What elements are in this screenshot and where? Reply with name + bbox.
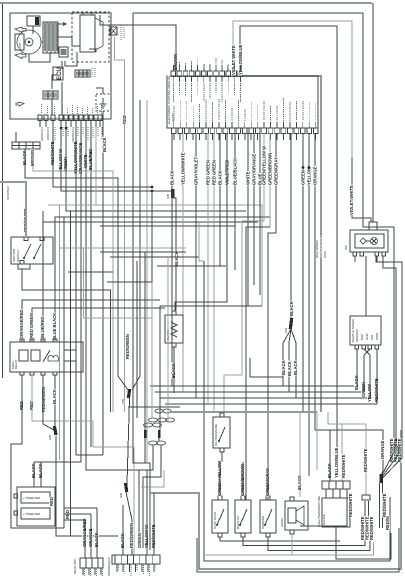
wire red/green down	[43, 375, 54, 430]
wire yellow ecm	[308, 133, 310, 476]
node dot	[151, 186, 154, 189]
wire oa	[84, 520, 86, 558]
wire outer right vertical	[372, 3, 374, 222]
twisted pair connector	[362, 495, 370, 500]
pins below B	[116, 564, 118, 572]
relay pin ticks	[20, 339, 24, 342]
wire yellow w	[61, 120, 171, 191]
svg-text:RED/GREEN: RED/GREEN	[129, 523, 134, 548]
ground symbol	[100, 98, 107, 108]
ISC pins bottom	[353, 252, 357, 256]
cluster pin stubs	[39, 121, 41, 128]
wire white	[86, 120, 147, 470]
node dot	[138, 545, 141, 548]
wire stub up	[15, 132, 17, 142]
wire bundle down b	[158, 438, 160, 441]
arrow upper	[15, 27, 26, 33]
svg-text:REAR WIP: REAR WIP	[73, 559, 77, 574]
wire gray 205 bus	[96, 120, 262, 306]
wire x140	[139, 100, 141, 376]
wire white ecm	[247, 133, 249, 306]
ECU box	[53, 67, 63, 80]
wire gray corner to bottom	[141, 470, 164, 487]
bus 518	[64, 507, 97, 509]
condenser box	[17, 487, 55, 526]
wire brown	[100, 15, 176, 71]
bus 530	[64, 519, 85, 521]
wire comp bottom	[173, 347, 175, 393]
bus 398	[160, 397, 370, 399]
wire gray 412 down	[316, 412, 318, 470]
wire blue/red up	[43, 222, 258, 342]
wire blue/red	[90, 120, 92, 447]
svg-text:SWITCH: SWITCH	[16, 250, 20, 262]
svg-text:BLACK: BLACK	[289, 301, 294, 316]
wire blue ecm	[259, 133, 261, 295]
wire isc to sensor	[365, 256, 367, 316]
svg-text:BLACK: BLACK	[170, 170, 175, 185]
svg-text:YELLOW: YELLOW	[307, 167, 312, 185]
svg-text:S/B: S/B	[119, 493, 123, 498]
fuse box	[59, 47, 68, 57]
wire to speaker	[55, 375, 56, 429]
wire brown	[33, 149, 113, 412]
bus 392	[155, 391, 364, 393]
twisted wire ellipse row3	[144, 423, 153, 427]
wire sw3 bottom	[268, 537, 370, 551]
svg-text:SENSOR: SENSOR	[355, 328, 359, 342]
wire violet-white net	[233, 21, 352, 160]
sensor pins	[355, 345, 359, 349]
svg-text:+ TWEETER: + TWEETER	[23, 512, 41, 516]
fuel pump relay box	[165, 315, 183, 343]
wire black pair	[33, 462, 35, 487]
node dot	[60, 127, 63, 130]
svg-text:STOP LIGHT: STOP LIGHT	[213, 511, 217, 529]
svg-text:BLACK: BLACK	[218, 170, 223, 185]
rear wiper connector	[80, 558, 103, 568]
svg-text:GREEN/BROWN: GREEN/BROWN	[268, 153, 273, 185]
svg-text:SIG: SIG	[370, 334, 374, 340]
svg-text:BLUE/BLACK: BLUE/BLACK	[233, 158, 238, 185]
svg-text:GND: GND	[365, 333, 369, 341]
check connector 4pin	[75, 70, 90, 77]
wire red green ecm	[213, 133, 215, 412]
wire sensor3	[369, 355, 371, 398]
wire green/brown jog	[246, 227, 270, 500]
cluster pin tiny labels	[41, 127, 43, 141]
wire 43 drop to switch	[42, 211, 44, 237]
wire isc pin stub	[354, 256, 356, 262]
wire gray down 59.5	[59, 205, 61, 460]
main relay box	[10, 342, 83, 372]
wire oil sw down	[221, 452, 223, 462]
svg-text:B/W: B/W	[360, 334, 364, 340]
svg-text:YELLOW/BLUE: YELLOW/BLUE	[334, 447, 339, 478]
wire sensor1	[356, 349, 358, 386]
twisted wire ellipse row4	[149, 441, 158, 445]
svg-text:YELLOW/WHITE: YELLOW/WHITE	[181, 152, 186, 185]
wire red down1	[11, 375, 64, 528]
bus 261 jog	[199, 222, 204, 261]
black/brown connector	[12, 142, 40, 149]
svg-text:RED GREEN: RED GREEN	[29, 313, 34, 338]
wire black ecm	[171, 133, 173, 386]
bus 226	[100, 225, 235, 227]
wire dark 70.5	[70, 211, 72, 536]
wire orange ecm	[314, 133, 316, 430]
wire green ecm	[302, 133, 304, 412]
wire gray 248 bus	[60, 247, 187, 249]
wire bundle diagonals	[381, 470, 383, 477]
svg-text:BLACK: BLACK	[52, 389, 57, 404]
wire sw1 bottom	[220, 537, 340, 541]
ignition switch box	[11, 237, 53, 264]
ECM bottom pin stubs	[173, 134, 175, 141]
wire green/gray top	[267, 462, 269, 496]
svg-text:ISC: ISC	[344, 244, 348, 250]
ECM top outside labels	[178, 62, 180, 70]
svg-text:S/B: S/B	[284, 328, 288, 333]
wire left long x133	[133, 13, 150, 550]
wire oc	[96, 508, 98, 558]
wire top gray bus	[0, 2, 372, 4]
distributor circle	[17, 30, 41, 54]
svg-text:GRAY/VIOLET: GRAY/VIOLET	[194, 157, 199, 185]
wire horn gray	[299, 412, 301, 497]
node dot	[146, 545, 149, 548]
wire blue/black ecm	[234, 133, 236, 270]
ECM top outside labels	[178, 62, 180, 70]
connector A pin labels	[84, 569, 86, 577]
svg-text:BLUE/RED: BLUE/RED	[40, 317, 45, 338]
twisted wire ellipse row2	[149, 418, 158, 422]
bus 386	[150, 385, 357, 387]
wire red green ecm	[207, 133, 209, 404]
bus 252	[100, 251, 186, 253]
twisted wire ellipse row1	[155, 409, 163, 413]
wire black3 c	[288, 343, 290, 392]
svg-text:RELAY: RELAY	[14, 359, 18, 369]
bus 524	[64, 513, 91, 515]
arrow lower	[15, 53, 26, 59]
wire gray 205 left ext	[48, 204, 96, 206]
ECM internal pin labels bottom	[173, 106, 175, 121]
fuel/temp gauge box	[322, 498, 350, 527]
wire gnd down	[102, 119, 104, 455]
svg-text:PWR: PWR	[375, 332, 379, 340]
crossing X	[364, 349, 370, 355]
wire gray big loop	[149, 430, 401, 569]
svg-text:WINDSHIELD: WINDSHIELD	[107, 556, 111, 576]
svg-text:RED GREEN: RED GREEN	[206, 160, 211, 185]
wire gray/violet ecm	[195, 133, 197, 398]
svg-text:RED/WHITE: RED/WHITE	[363, 448, 368, 472]
wire black ecm	[219, 133, 221, 266]
svg-text:S/B: S/B	[166, 194, 170, 199]
twisted pair	[364, 501, 366, 538]
splice	[171, 189, 175, 198]
cluster internal wires	[32, 26, 34, 34]
wire green/gray jog	[268, 233, 276, 500]
wire x147 gray	[146, 100, 148, 463]
wire gray feed ign	[0, 182, 26, 237]
svg-text:S/B: S/B	[48, 435, 52, 440]
wire bundle down d	[143, 445, 161, 548]
wire green/yellow w ecm	[263, 133, 265, 221]
bus 306	[160, 305, 262, 307]
wire cont	[128, 406, 180, 408]
wire gray/orange ecm	[253, 133, 255, 285]
bus 282	[32, 308, 165, 342]
wire funnel merge	[118, 376, 128, 390]
wire red main	[115, 37, 125, 412]
fuel/temp gauge connector	[322, 481, 350, 489]
gauge wires between	[325, 489, 327, 498]
svg-text:GREEN: GREEN	[301, 170, 306, 185]
wire b1	[122, 505, 124, 555]
node dot	[151, 190, 154, 193]
arrow right of strip	[58, 23, 66, 25]
switch STOP LIGHT	[212, 500, 228, 533]
wire yellow/white ecm	[182, 133, 184, 392]
switch PARKING	[260, 500, 276, 533]
vehicle speed sensor box	[350, 316, 381, 345]
svg-text:RED/WHITE: RED/WHITE	[382, 493, 387, 517]
wire left edge	[2, 3, 4, 378]
connector B pin labels	[118, 565, 120, 571]
svg-text:GRAY/ORANGE: GRAY/ORANGE	[252, 154, 257, 185]
ign bottom connector	[18, 264, 30, 269]
pins below A	[82, 568, 84, 575]
wire bundle down a	[133, 438, 145, 463]
svg-text:BLUE BLACK: BLUE BLACK	[52, 313, 57, 340]
oil pressure switch box	[213, 417, 230, 448]
main fuse link	[110, 27, 117, 35]
ECM top pin stubs	[172, 65, 174, 71]
wire gray/orange	[80, 120, 82, 462]
splice ticks	[144, 430, 147, 438]
bus 377	[250, 376, 283, 378]
wire green/brown ecm	[269, 133, 271, 227]
wire ob	[90, 514, 92, 558]
battery dashed box	[72, 12, 109, 62]
svg-text:RED: RED	[49, 497, 54, 506]
bus dark 572	[197, 528, 399, 572]
svg-text:GREEN/YELLOW W: GREEN/YELLOW W	[262, 146, 267, 185]
wire bundle down c	[139, 445, 153, 548]
wire red down2 gray	[32, 375, 134, 555]
ECM top pin stubs	[172, 65, 174, 71]
bus 257	[110, 256, 199, 258]
distributor assembly outer box	[10, 13, 111, 119]
svg-text:WHITE: WHITE	[246, 171, 251, 185]
svg-text:GREEN/GRAY: GREEN/GRAY	[274, 157, 279, 185]
switch BACK-UP	[235, 500, 251, 533]
wire green/gray ecm	[275, 133, 277, 233]
svg-text:RED/WHITE: RED/WHITE	[369, 516, 374, 540]
svg-text:RED/W: RED/W	[385, 516, 390, 530]
wire green/yellow jog	[224, 221, 264, 413]
wire violet/red to comp	[175, 133, 227, 311]
ECM internal pin labels top	[172, 83, 174, 103]
svg-text:RED: RED	[65, 510, 70, 519]
bus 462	[34, 461, 81, 463]
svg-text:RED/WHITE: RED/WHITE	[341, 454, 346, 478]
wire black	[25, 149, 118, 376]
wire gray 397	[376, 256, 378, 262]
ignition coil box	[27, 16, 40, 26]
wire orange jog	[315, 430, 383, 470]
ECM internal pin labels top	[172, 83, 174, 103]
svg-text:RED/GREEN: RED/GREEN	[125, 334, 130, 359]
wires through bundle	[151, 191, 153, 282]
wire yellow/blue net	[240, 26, 337, 474]
windshield wiper connector	[112, 555, 160, 564]
svg-text:BLACK: BLACK	[287, 361, 292, 376]
wire sw2 bottom	[243, 537, 365, 546]
wire sensor2	[363, 355, 365, 392]
svg-text:ORANGE/RED: ORANGE/RED	[19, 310, 24, 338]
wire violet/red ecm	[226, 133, 228, 300]
wire b5	[153, 493, 155, 555]
splice S	[53, 426, 58, 435]
wire black3 b	[282, 343, 284, 386]
distributor body rect	[15, 34, 24, 50]
horn	[285, 501, 308, 530]
diagnosis box	[43, 91, 58, 99]
wire dark 64	[63, 217, 65, 528]
wire q1	[300, 489, 347, 526]
wire splice down black	[173, 198, 176, 310]
wire green	[66, 120, 246, 211]
bus gray 412	[171, 411, 317, 413]
svg-text:S/B: S/B	[121, 399, 125, 404]
svg-text:ORANGE: ORANGE	[313, 166, 318, 185]
electronic control module ECM box	[167, 76, 318, 128]
ISC top connector	[369, 222, 377, 230]
svg-text:BACK-UP: BACK-UP	[236, 516, 240, 529]
wire sensor4	[376, 349, 378, 404]
wire yellow/white	[75, 120, 77, 455]
ECM bottom pin row	[172, 122, 319, 134]
wire black g	[329, 430, 331, 481]
wire gray 424	[328, 412, 366, 495]
svg-text:RED/WHITE: RED/WHITE	[348, 493, 353, 517]
svg-text:(ISC): (ISC)	[323, 251, 327, 258]
svg-text:GAUGE: GAUGE	[322, 514, 326, 525]
svg-text:ORANGE: ORANGE	[380, 440, 385, 459]
wire b3	[146, 470, 148, 555]
svg-text:+ TWEETER: + TWEETER	[23, 496, 41, 500]
svg-text:PARKING: PARKING	[261, 515, 265, 529]
cluster bottom pin row	[43, 119, 262, 536]
wire ign bottom	[22, 269, 111, 412]
bus 266	[157, 265, 226, 267]
cluster pin inner labels	[41, 104, 43, 114]
bus 272	[22, 300, 160, 342]
wire loop2	[133, 13, 394, 443]
connector strip 4col	[43, 22, 58, 53]
wire green+yellow top	[219, 462, 221, 496]
ISC motor box	[350, 230, 388, 252]
arrow small	[16, 102, 24, 106]
wire gauge bottom	[336, 527, 391, 559]
ECM internal pin labels bottom	[173, 106, 175, 121]
wire horn bottom	[291, 534, 293, 555]
wire long 206	[204, 261, 390, 561]
wire black3 a	[290, 133, 292, 318]
svg-text:BLACK: BLACK	[293, 360, 298, 375]
wire gray ecm line	[243, 76, 321, 412]
battery body	[80, 15, 95, 52]
ECM top pin row	[171, 71, 243, 82]
svg-text:BLACK: BLACK	[281, 360, 286, 375]
splice black	[289, 318, 294, 329]
wire blue black up	[55, 217, 270, 342]
wire 250 corner	[249, 358, 251, 377]
svg-text:OIL PRESSURE: OIL PRESSURE	[214, 424, 218, 446]
bus gray 555	[204, 542, 374, 555]
wire green/brown top	[242, 462, 244, 496]
svg-text:HORN: HORN	[280, 518, 284, 527]
bus 404	[165, 403, 377, 405]
svg-text:GREEN: GREEN	[137, 533, 142, 548]
svg-text:FUEL/TEMPERATURE: FUEL/TEMPERATURE	[317, 496, 321, 527]
ECM bottom pin stubs	[173, 134, 175, 141]
wire red/white	[53, 120, 152, 187]
svg-text:RED GREEN: RED GREEN	[212, 160, 217, 185]
wire violet-white lower	[352, 158, 371, 222]
wire gray gauge red/white	[341, 424, 343, 481]
